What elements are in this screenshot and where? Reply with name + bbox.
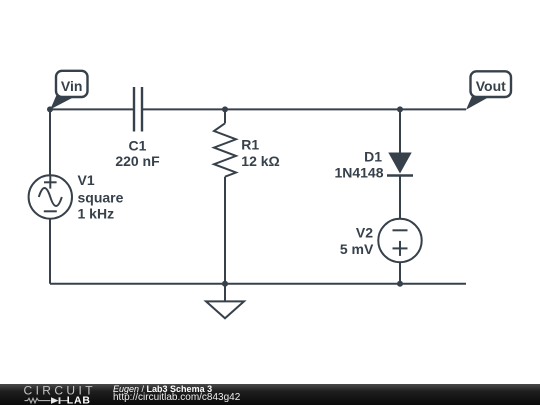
svg-text:12 kΩ: 12 kΩ bbox=[241, 153, 279, 169]
svg-text:LAB: LAB bbox=[67, 394, 91, 405]
node Vin junction bbox=[47, 106, 53, 112]
wire bottom rail bbox=[50, 283, 466, 285]
svg-text:square: square bbox=[78, 189, 124, 205]
svg-text:1N4148: 1N4148 bbox=[334, 164, 383, 180]
source V2 bbox=[378, 219, 421, 262]
svg-text:220 nF: 220 nF bbox=[115, 153, 160, 169]
svg-text:Vout: Vout bbox=[476, 78, 506, 94]
svg-text:R1: R1 bbox=[241, 137, 259, 153]
diode D1 bbox=[387, 153, 413, 176]
node V2 bottom junction bbox=[397, 281, 403, 287]
node D1 top junction bbox=[397, 106, 403, 112]
svg-text:1 kHz: 1 kHz bbox=[78, 205, 115, 221]
svg-text:5 mV: 5 mV bbox=[340, 241, 374, 257]
svg-text:V2: V2 bbox=[356, 225, 373, 241]
wire diode to V2 bbox=[399, 177, 401, 219]
wire left vertical upper: Vin node to V1 top bbox=[49, 109, 51, 175]
capacitor C1 bbox=[134, 87, 142, 132]
label R1 value bbox=[241, 137, 279, 170]
svg-text:D1: D1 bbox=[364, 148, 382, 164]
node ground junction bbox=[222, 281, 228, 287]
label C1 value bbox=[115, 137, 160, 169]
flag Vin bbox=[50, 71, 87, 110]
label V2 value bbox=[340, 225, 374, 257]
wire ground stem bbox=[224, 284, 226, 302]
svg-text:V1: V1 bbox=[78, 172, 95, 188]
resistor R1 zigzag bbox=[214, 123, 236, 176]
footer bar bbox=[0, 384, 540, 405]
svg-text:Vin: Vin bbox=[61, 78, 83, 94]
flag Vout bbox=[466, 71, 511, 109]
node R1 top junction bbox=[222, 106, 228, 112]
svg-text:C1: C1 bbox=[129, 137, 147, 153]
label D1 value bbox=[334, 148, 383, 180]
wire diode top lead bbox=[399, 109, 401, 153]
label V1 value bbox=[78, 172, 124, 221]
wire top middle: C1 right plate to right stub end bbox=[142, 108, 466, 110]
CircuitLab logo bbox=[0, 384, 110, 405]
wire V2 bottom lead bbox=[399, 263, 401, 284]
ground bbox=[206, 301, 244, 318]
wire left vertical lower: V1 bottom to bottom rail bbox=[49, 219, 51, 284]
wire R1 bottom lead bbox=[224, 177, 226, 284]
wire top left: Vin node to C1 left plate bbox=[50, 108, 134, 110]
source V1 bbox=[29, 175, 72, 218]
wire R1 top lead bbox=[224, 109, 226, 123]
